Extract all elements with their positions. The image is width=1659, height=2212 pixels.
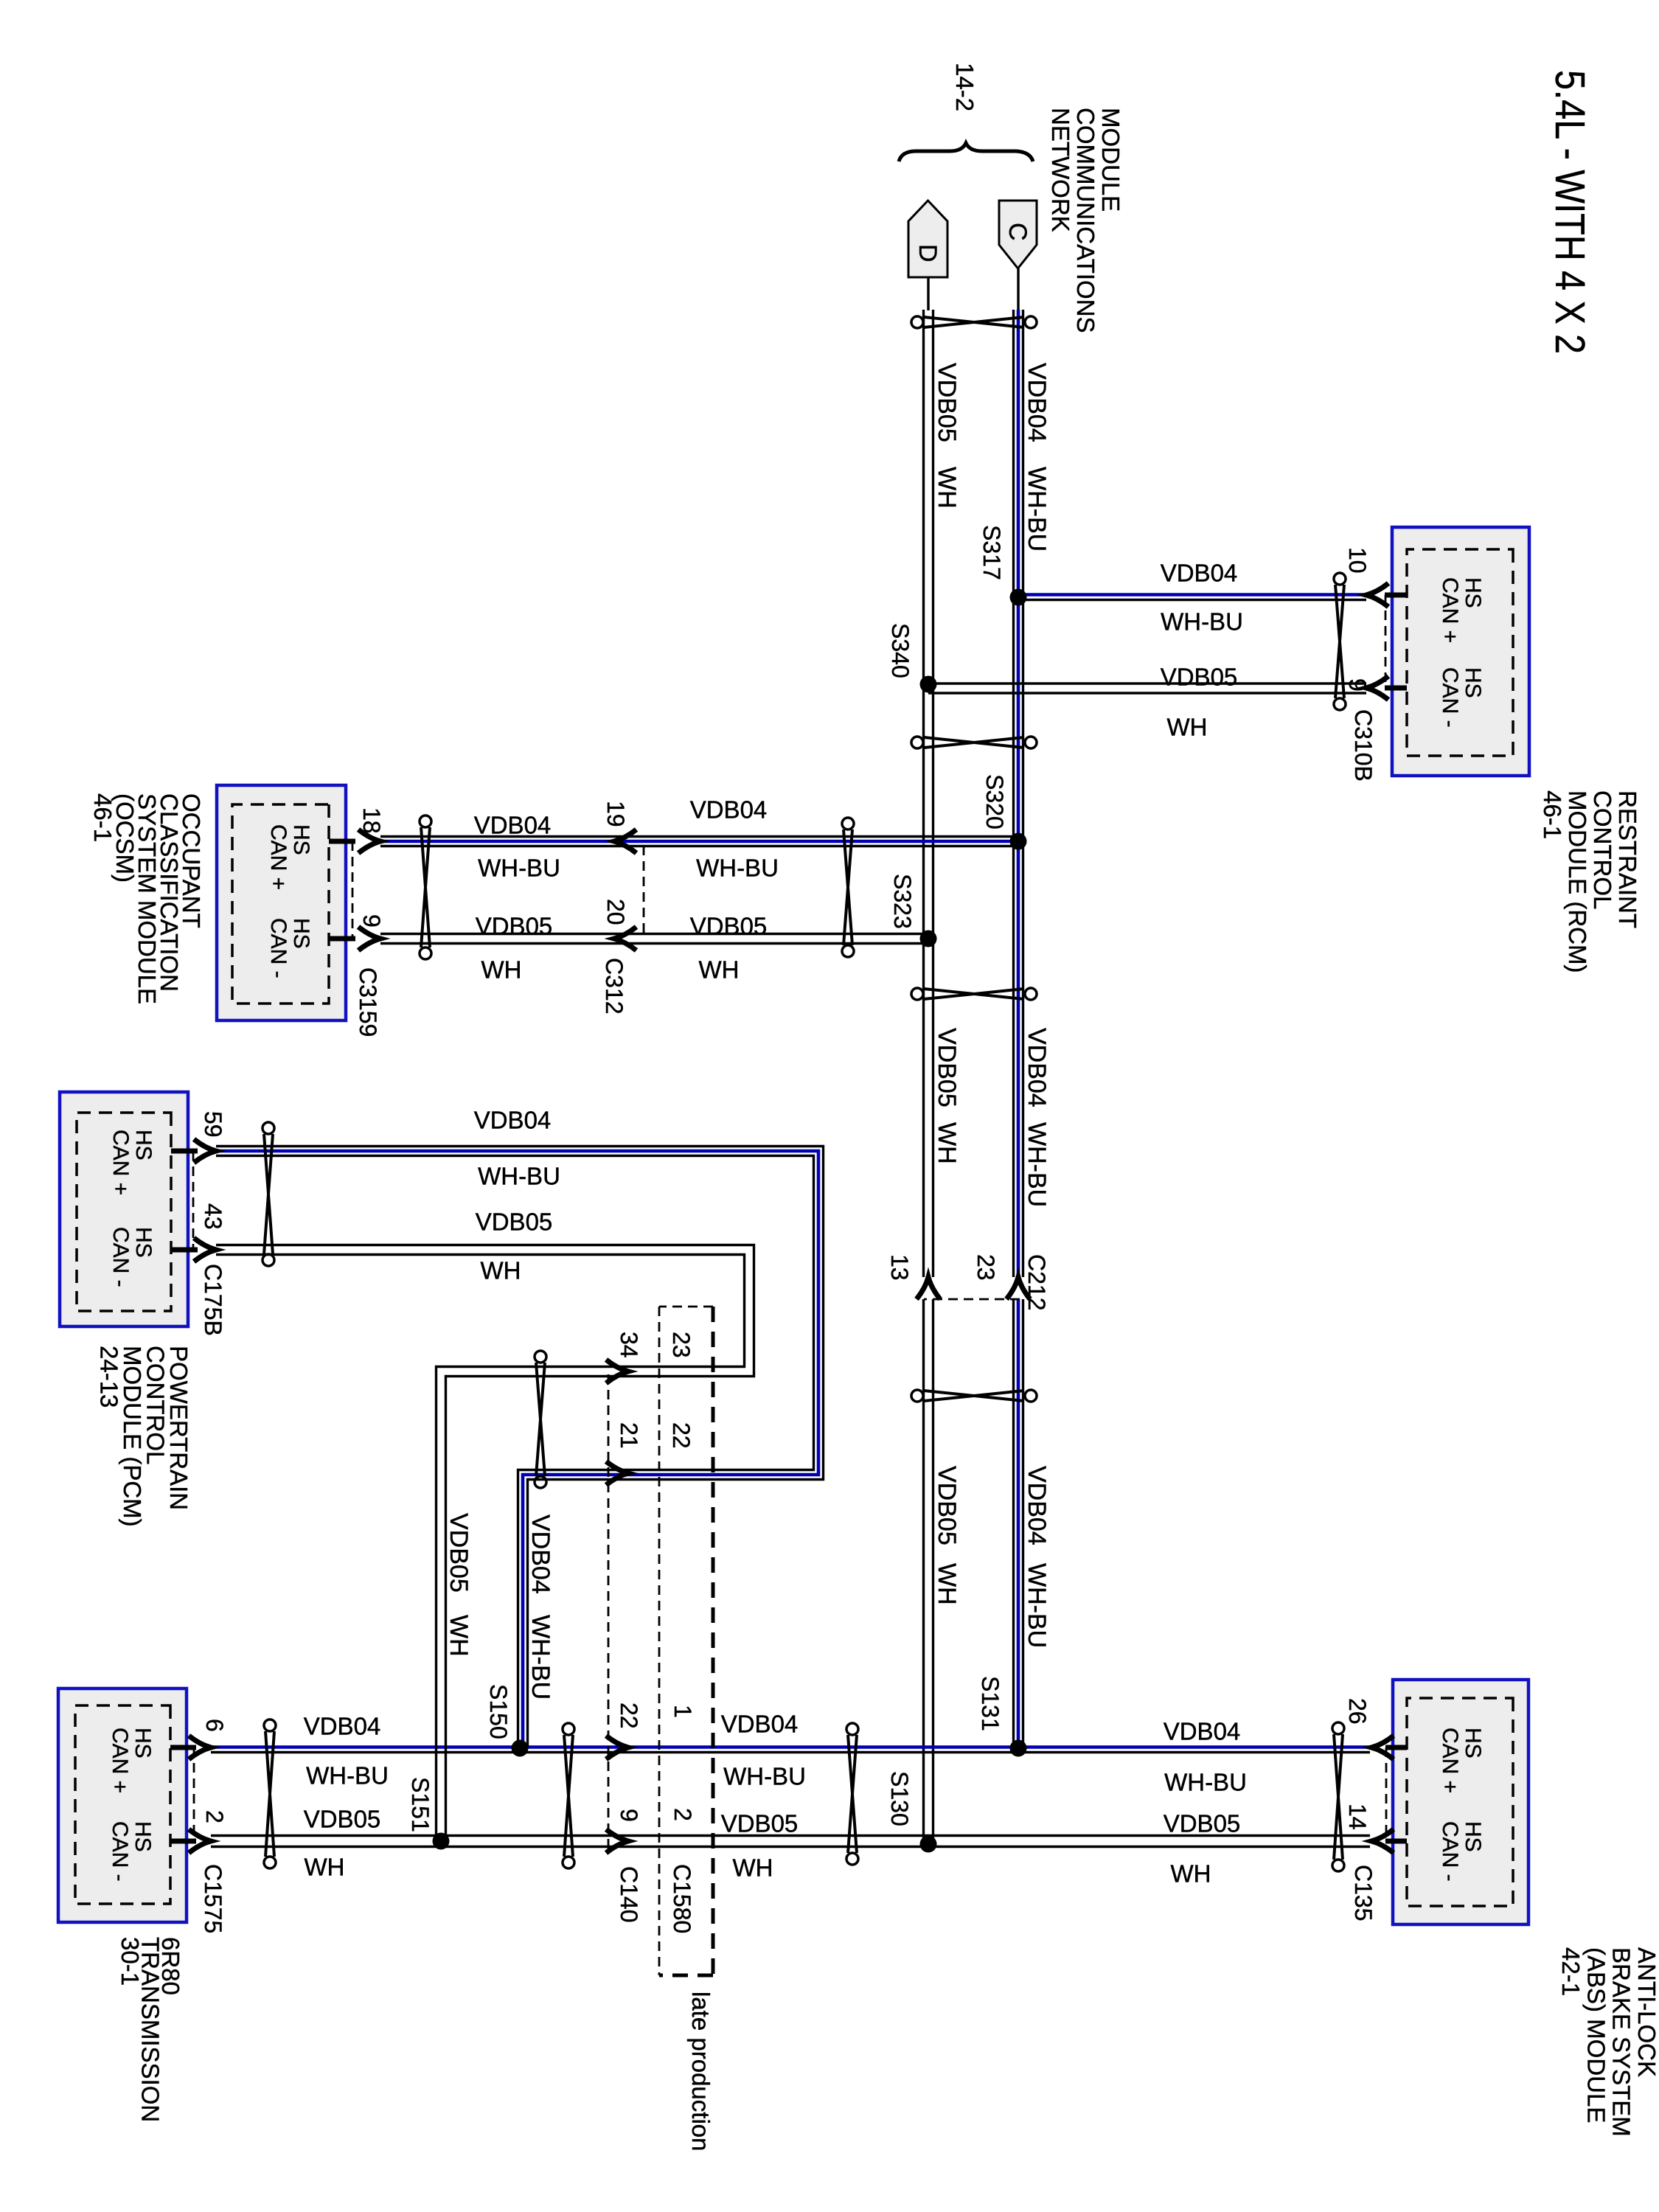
svg-text:HS: HS — [131, 1728, 155, 1759]
svg-text:C1580: C1580 — [669, 1864, 695, 1933]
svg-text:BRAKE SYSTEM: BRAKE SYSTEM — [1608, 1947, 1635, 2137]
svg-text:23: 23 — [973, 1254, 999, 1281]
svg-text:24-13: 24-13 — [96, 1346, 123, 1408]
svg-text:WH: WH — [933, 1563, 961, 1605]
svg-text:C212: C212 — [1023, 1254, 1050, 1311]
svg-text:WH: WH — [1167, 714, 1208, 741]
svg-text:CAN +: CAN + — [1438, 577, 1462, 643]
svg-text:WH: WH — [305, 1854, 345, 1881]
svg-text:(ABS) MODULE: (ABS) MODULE — [1582, 1947, 1610, 2123]
svg-text:S340: S340 — [887, 623, 914, 678]
svg-text:VDB04: VDB04 — [474, 812, 552, 839]
svg-text:CONTROL: CONTROL — [1589, 790, 1616, 909]
svg-text:43: 43 — [200, 1203, 226, 1230]
svg-text:ANTI-LOCK: ANTI-LOCK — [1633, 1947, 1659, 2077]
svg-text:WH-BU: WH-BU — [723, 1763, 806, 1790]
svg-text:VDB05: VDB05 — [933, 1028, 961, 1107]
svg-text:10: 10 — [1344, 547, 1371, 574]
svg-text:CAN -: CAN - — [1438, 667, 1462, 728]
svg-text:1: 1 — [669, 1705, 696, 1718]
svg-text:VDB04: VDB04 — [1023, 363, 1051, 442]
svg-text:VDB04: VDB04 — [474, 1107, 552, 1134]
svg-text:VDB05: VDB05 — [721, 1810, 799, 1837]
svg-text:VDB05: VDB05 — [933, 1466, 961, 1545]
svg-text:WH: WH — [481, 1257, 521, 1284]
svg-text:19: 19 — [602, 801, 629, 827]
svg-text:C310B: C310B — [1350, 709, 1377, 782]
svg-text:CAN +: CAN + — [108, 1130, 133, 1195]
svg-text:21: 21 — [616, 1422, 642, 1449]
svg-text:9: 9 — [1344, 678, 1371, 692]
svg-text:VDB04: VDB04 — [721, 1711, 799, 1738]
svg-text:WH-BU: WH-BU — [1023, 1563, 1051, 1648]
svg-text:S323: S323 — [889, 874, 916, 929]
svg-text:WH: WH — [733, 1854, 773, 1882]
svg-text:S320: S320 — [981, 774, 1008, 829]
svg-text:VDB05: VDB05 — [304, 1806, 381, 1833]
svg-text:WH: WH — [481, 956, 522, 984]
svg-text:VDB05: VDB05 — [445, 1513, 473, 1593]
svg-text:HS: HS — [131, 1227, 156, 1258]
svg-text:NETWORK: NETWORK — [1047, 108, 1074, 232]
svg-text:WH: WH — [933, 467, 961, 509]
svg-text:HS: HS — [1461, 667, 1485, 698]
svg-text:VDB04: VDB04 — [1164, 1718, 1241, 1745]
svg-text:WH-BU: WH-BU — [478, 855, 560, 882]
svg-text:S151: S151 — [407, 1777, 434, 1832]
svg-text:59: 59 — [200, 1111, 226, 1138]
svg-text:VDB04: VDB04 — [526, 1514, 554, 1594]
svg-text:HS: HS — [1461, 1821, 1485, 1852]
svg-text:C1575: C1575 — [200, 1864, 226, 1933]
svg-text:VDB04: VDB04 — [1161, 560, 1238, 587]
svg-text:S150: S150 — [485, 1684, 512, 1739]
svg-text:9: 9 — [358, 914, 385, 928]
svg-text:HS: HS — [131, 1130, 156, 1161]
svg-text:VDB05: VDB05 — [1161, 664, 1238, 691]
svg-text:S131: S131 — [977, 1676, 1004, 1731]
svg-text:WH-BU: WH-BU — [1023, 467, 1051, 552]
svg-text:34: 34 — [616, 1332, 642, 1358]
svg-text:22: 22 — [668, 1422, 695, 1449]
svg-text:HS: HS — [1461, 1728, 1485, 1759]
svg-text:30-1: 30-1 — [116, 1937, 144, 1986]
svg-text:WH: WH — [1171, 1860, 1211, 1888]
svg-text:22: 22 — [616, 1703, 642, 1729]
svg-text:14: 14 — [1344, 1804, 1371, 1830]
svg-text:C3159: C3159 — [355, 967, 381, 1037]
svg-text:VDB04: VDB04 — [1023, 1466, 1051, 1545]
svg-text:26: 26 — [1344, 1698, 1371, 1725]
svg-text:WH-BU: WH-BU — [526, 1615, 554, 1700]
svg-text:HS: HS — [289, 918, 313, 949]
svg-text:S317: S317 — [978, 525, 1005, 580]
svg-text:C: C — [1004, 223, 1032, 241]
svg-text:C135: C135 — [1350, 1865, 1377, 1921]
svg-text:WH-BU: WH-BU — [1023, 1122, 1051, 1207]
svg-text:WH-BU: WH-BU — [478, 1163, 560, 1190]
svg-text:42-1: 42-1 — [1557, 1947, 1585, 1996]
svg-text:C140: C140 — [616, 1866, 642, 1923]
svg-text:C312: C312 — [601, 958, 627, 1015]
svg-text:CAN -: CAN - — [108, 1227, 133, 1287]
svg-text:9: 9 — [616, 1809, 642, 1822]
svg-text:2: 2 — [669, 1808, 696, 1821]
svg-text:CAN +: CAN + — [108, 1728, 132, 1793]
svg-text:POWERTRAIN: POWERTRAIN — [165, 1346, 192, 1510]
svg-text:CAN +: CAN + — [266, 824, 291, 890]
svg-text:WH: WH — [445, 1615, 473, 1657]
svg-text:WH-BU: WH-BU — [696, 855, 779, 882]
svg-text:23: 23 — [668, 1332, 695, 1358]
svg-text:2: 2 — [201, 1810, 228, 1823]
svg-text:WH: WH — [699, 956, 740, 984]
svg-text:WH: WH — [933, 1122, 961, 1164]
svg-text:WH-BU: WH-BU — [306, 1762, 389, 1790]
svg-text:C175B: C175B — [200, 1264, 226, 1336]
svg-text:COMMUNICATIONS: COMMUNICATIONS — [1072, 108, 1099, 333]
svg-text:VDB04: VDB04 — [1023, 1028, 1051, 1107]
svg-text:46-1: 46-1 — [1539, 790, 1566, 839]
svg-text:VDB04: VDB04 — [690, 796, 768, 824]
svg-text:VDB05: VDB05 — [476, 913, 553, 940]
svg-text:CAN -: CAN - — [266, 918, 291, 978]
svg-text:CAN -: CAN - — [108, 1821, 132, 1882]
svg-text:6: 6 — [201, 1719, 228, 1732]
svg-text:CAN -: CAN - — [1438, 1821, 1462, 1882]
svg-text:VDB05: VDB05 — [476, 1208, 553, 1236]
svg-text:VDB05: VDB05 — [933, 363, 961, 442]
svg-text:5.4L - WITH 4 X 2: 5.4L - WITH 4 X 2 — [1546, 70, 1593, 354]
svg-text:S130: S130 — [886, 1771, 913, 1826]
svg-text:D: D — [914, 244, 942, 262]
svg-text:MODULE (PCM): MODULE (PCM) — [119, 1346, 146, 1527]
svg-text:14-2: 14-2 — [951, 63, 978, 111]
svg-text:20: 20 — [602, 899, 629, 925]
svg-text:VDB05: VDB05 — [1164, 1810, 1241, 1837]
svg-text:WH-BU: WH-BU — [1164, 1769, 1247, 1796]
svg-text:VDB04: VDB04 — [304, 1713, 381, 1740]
svg-text:HS: HS — [131, 1821, 155, 1852]
svg-text:MODULE (RCM): MODULE (RCM) — [1564, 790, 1591, 973]
svg-text:MODULE: MODULE — [1097, 108, 1124, 212]
svg-text:late production: late production — [687, 1992, 714, 2151]
svg-text:CONTROL: CONTROL — [142, 1346, 170, 1464]
svg-text:18: 18 — [358, 807, 385, 834]
svg-text:RESTRAINT: RESTRAINT — [1614, 790, 1641, 928]
svg-text:HS: HS — [289, 824, 313, 855]
svg-text:HS: HS — [1461, 577, 1485, 608]
svg-text:VDB05: VDB05 — [690, 913, 768, 940]
svg-text:WH-BU: WH-BU — [1161, 608, 1243, 636]
svg-text:CAN +: CAN + — [1438, 1728, 1462, 1793]
svg-text:46-1: 46-1 — [89, 793, 116, 842]
svg-text:13: 13 — [886, 1254, 913, 1281]
